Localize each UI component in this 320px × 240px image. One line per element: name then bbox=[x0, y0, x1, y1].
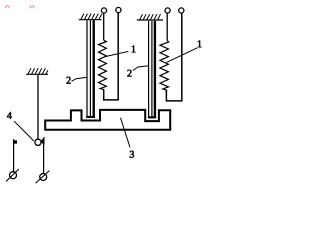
pin circle L2 bbox=[116, 7, 121, 12]
fixed support line (top-right) bbox=[137, 19, 163, 21]
right hanger U link (spring bottom to pin R2) bbox=[166, 13, 181, 101]
fixed support line (top-left) bbox=[79, 19, 102, 21]
fixed support hatching (top-left) bbox=[81, 14, 102, 20]
fixed support hatching (top-right) bbox=[140, 14, 161, 20]
spring 1 (left) hanger stem from L1 bbox=[103, 13, 105, 40]
wire from pawl to bottom roller bbox=[43, 144, 45, 173]
label 3 bbox=[130, 151, 134, 158]
fixed support line (middle-left) bbox=[26, 73, 48, 75]
beam 3 outline bbox=[45, 110, 170, 130]
spring 1 (left) zigzag bbox=[99, 40, 107, 89]
bottom roller (right) slash bbox=[36, 171, 50, 184]
leader for label 3 bbox=[121, 118, 131, 148]
label 2 (left) bbox=[67, 77, 71, 84]
spring 1 (right) hanger stem from R1 bbox=[166, 13, 168, 40]
pin circle L1 (spring top) bbox=[101, 8, 106, 13]
red watermark dots (left group) bbox=[5, 5, 10, 8]
leader for label 1 (left) bbox=[105, 51, 129, 56]
pendulum stem wire bbox=[37, 75, 39, 139]
red watermark dots (right group) bbox=[30, 5, 35, 8]
bottom roller (left) circle bbox=[10, 172, 17, 179]
spring 1 (right) zigzag bbox=[160, 41, 169, 91]
bottom roller (left) slash bbox=[6, 169, 19, 181]
pawl (filled triangle at pivot) bbox=[40, 136, 44, 144]
leader for label 4 bbox=[14, 121, 34, 141]
rod 2 (left) bottom cap bbox=[86, 116, 95, 118]
label 1 (left) bbox=[132, 46, 136, 53]
bottom roller (right) circle bbox=[40, 174, 47, 181]
label 4 bbox=[7, 112, 12, 119]
clamp knob on left wire bbox=[14, 140, 17, 143]
leader for label 2 (right) bbox=[133, 66, 148, 71]
rod 2 (left) vertical lines bbox=[87, 20, 94, 116]
pivot circle 4 bbox=[35, 139, 41, 145]
left hanger U link (spring bottom to pin L2) bbox=[104, 13, 119, 100]
label 1 (right) bbox=[198, 40, 202, 47]
leader for label 2 (left) bbox=[72, 77, 87, 81]
left hanging wire with clamp bbox=[13, 139, 15, 171]
rod 2 (right) bottom cap bbox=[148, 116, 156, 118]
pin circle R1 (spring top) bbox=[165, 8, 170, 13]
pin circle R2 bbox=[179, 8, 184, 13]
fixed support hatching (middle-left) bbox=[28, 68, 48, 74]
label 2 (right) bbox=[127, 70, 131, 77]
rod 2 (right) vertical lines bbox=[149, 21, 155, 117]
leader for label 1 (right) bbox=[167, 48, 198, 63]
